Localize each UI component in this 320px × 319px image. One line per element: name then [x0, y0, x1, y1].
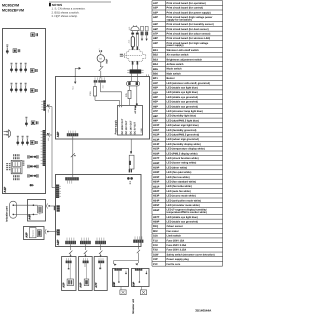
svg-text:BS3: BS3 — [153, 58, 158, 61]
svg-text:S1A: S1A — [71, 86, 74, 90]
wire ion a — [13, 204, 37, 206]
svg-text:DC 14V OUT: DC 14V OUT — [130, 120, 133, 134]
svg-text:H17P: H17P — [153, 157, 160, 160]
wire ferrite to X1A L — [130, 74, 132, 82]
legend table — [152, 0, 223, 2]
PCB A1P box — [3, 29, 46, 194]
board connector mark a — [47, 105, 49, 106]
wire X4A to X6A — [72, 136, 74, 177]
svg-text:M1F: M1F — [153, 230, 158, 233]
notes header rule — [49, 1, 111, 3]
LED row H8P-H10P x4 a — [11, 63, 13, 64]
svg-text:Airflow switch: Airflow switch — [167, 63, 184, 66]
svg-text:power supply): power supply) — [167, 44, 184, 47]
svg-text:supply for ionization): supply for ionization) — [167, 18, 192, 21]
svg-text:LED (stable eye green/red): LED (stable eye green/red) — [167, 96, 199, 99]
svg-text:BS5: BS5 — [153, 68, 158, 71]
svg-text:LED (streamer lamp light blue): LED (streamer lamp light blue) — [167, 110, 203, 113]
S1W pins — [132, 46, 134, 50]
svg-text:M1F: M1F — [105, 58, 108, 63]
svg-text:Print circuit board (for dust: Print circuit board (for dust sensor) — [167, 28, 209, 31]
svg-text:BS4: BS4 — [153, 63, 158, 66]
svg-text:H9P: H9P — [153, 119, 158, 122]
cable plug R — [135, 34, 137, 46]
LED H6P — [30, 184, 32, 186]
wire X1A to PS — [136, 86, 138, 105]
connector X7A on A2P left — [56, 185, 59, 199]
svg-text:DC 15/5V OUT: DC 15/5V OUT — [121, 118, 124, 134]
wire X5A to F1U — [94, 83, 96, 87]
wire A1P X3A to bus — [46, 134, 52, 136]
svg-text:X1P: X1P — [128, 26, 131, 30]
PCB A6P box — [79, 257, 93, 291]
svg-text:LED (odour sign green/red): LED (odour sign green/red) — [167, 138, 200, 141]
svg-text:H27P: H27P — [153, 216, 160, 219]
ferrite bead — [130, 69, 142, 73]
power supply unit box — [118, 106, 143, 136]
svg-text:LED (fan quiet white): LED (fan quiet white) — [167, 171, 192, 174]
connector X15A on A2P bottom — [65, 241, 76, 244]
svg-text:H23P: H23P — [153, 195, 160, 198]
svg-text:LED (louver swing white): LED (louver swing white) — [167, 162, 197, 165]
wire A9P to A2P — [49, 231, 57, 233]
svg-text:H6P: H6P — [153, 105, 158, 108]
svg-text:LED (auto fan white): LED (auto fan white) — [167, 190, 191, 193]
LED row H11P-H13P x4 b — [11, 83, 13, 84]
svg-text:H4P: H4P — [153, 96, 158, 99]
wire ion b — [13, 213, 37, 215]
wire X5A-2 to PS — [99, 83, 101, 92]
wire bus to A2P — [52, 187, 56, 189]
connector X13A — [30, 141, 34, 145]
A9P out connector — [45, 229, 46, 234]
svg-text:LED (fan turbo white): LED (fan turbo white) — [167, 185, 192, 188]
fan motor M1F — [97, 55, 104, 62]
svg-text:X1P: X1P — [153, 258, 158, 261]
svg-text:Power supply plug: Power supply plug — [167, 258, 190, 261]
PCB A3P box — [56, 77, 150, 140]
svg-text:LED (stable eye green/red): LED (stable eye green/red) — [167, 220, 199, 223]
svg-text:S1W: S1W — [153, 253, 159, 256]
power supply plug X1P — [131, 26, 139, 30]
A9P inner unit — [29, 228, 36, 238]
wire streamer electrode — [141, 287, 143, 290]
svg-text:F2U: F2U — [153, 244, 158, 247]
svg-text:H10P: H10P — [153, 124, 160, 127]
X3A pin ticks — [41, 131, 43, 133]
svg-text:BS6: BS6 — [153, 72, 158, 75]
A4P transformer — [38, 206, 43, 213]
PCB A8P box — [113, 269, 129, 287]
X6A pin ticks — [66, 180, 68, 183]
connector X4A on A3P bottom — [67, 133, 79, 136]
connection arrow in S1A — [74, 78, 76, 82]
X18A ticks — [134, 236, 136, 239]
svg-text:A9P: A9P — [133, 281, 136, 286]
svg-text:Fuse 250V 3.15A: Fuse 250V 3.15A — [167, 249, 187, 252]
svg-text:H21P: H21P — [153, 185, 160, 188]
svg-text:LED (odour sign light blue): LED (odour sign light blue) — [167, 124, 199, 127]
svg-text:A5P: A5P — [62, 282, 65, 287]
svg-text:LED (humidity light blue): LED (humidity light blue) — [167, 115, 197, 118]
buzzer BZ1 — [4, 131, 8, 133]
wire X1A to F2U — [128, 86, 130, 90]
svg-text:Ferrite core: Ferrite core — [167, 263, 181, 266]
svg-text:LED (PM2.5 display white): LED (PM2.5 display white) — [167, 152, 198, 155]
streamer bus — [114, 260, 139, 262]
connector X14A on A2P left — [57, 229, 60, 235]
svg-text:Z1C: Z1C — [128, 39, 131, 43]
svg-text:Brightness adjustment switch: Brightness adjustment switch — [167, 58, 203, 61]
svg-text:Fuse 250V 3.15A: Fuse 250V 3.15A — [167, 244, 187, 247]
junction dots — [33, 204, 35, 206]
svg-text:H19P: H19P — [153, 166, 160, 169]
streamer pcb wires — [138, 271, 140, 282]
PCB A7P box — [94, 257, 107, 291]
LED row x3 — [17, 136, 19, 137]
connector X8A on A2P left — [57, 205, 60, 211]
connector X12A — [31, 121, 35, 125]
svg-text:X2A: X2A — [47, 108, 50, 112]
board connector mark b — [47, 133, 49, 134]
connector X11A — [30, 89, 34, 93]
terminal a — [141, 26, 144, 31]
ferrite core Z1C — [131, 37, 134, 47]
svg-text:R1Q: R1Q — [153, 225, 158, 228]
X4A pin ticks — [68, 131, 70, 134]
A8P electrode box — [120, 290, 126, 295]
LED pair H27P/H28P — [26, 174, 29, 177]
svg-text:Print circuit board (for odour: Print circuit board (for odour sensor) — [167, 32, 211, 35]
svg-text:A5P: A5P — [153, 23, 158, 26]
svg-text:Print circuit board (for opera: Print circuit board (for operation) — [167, 2, 206, 5]
svg-text:Streamer: Streamer — [32, 229, 35, 236]
svg-text:LED (temperature display white: LED (temperature display white) — [167, 148, 205, 151]
svg-text:Fan motor: Fan motor — [167, 230, 179, 233]
PCB A5P box — [62, 257, 76, 291]
svg-text:temperature/PM2.5 monitor whit: temperature/PM2.5 monitor white) — [167, 211, 207, 214]
svg-text:H11P: H11P — [153, 129, 159, 132]
svg-text:LED (humidity green/red): LED (humidity green/red) — [167, 129, 197, 132]
svg-text:LED (timer white): LED (timer white) — [167, 166, 188, 169]
svg-text:Main switch: Main switch — [167, 72, 182, 75]
svg-text:A2P: A2P — [153, 7, 158, 10]
svg-text:LED (wireless LAN on/off, gree: LED (wireless LAN on/off, green/red) — [167, 82, 211, 85]
svg-text:AC IN: AC IN — [134, 107, 137, 113]
A9P hv block — [37, 230, 41, 237]
svg-text:2. BS() shows a switch.: 2. BS() shows a switch. — [52, 11, 80, 14]
LED pair H3P/H5P — [26, 165, 29, 168]
X17A ticks — [96, 238, 98, 241]
svg-text:F1U: F1U — [153, 239, 158, 242]
wire A1P X2A to bus — [46, 106, 52, 108]
svg-text:DC 12V OUT: DC 12V OUT — [125, 120, 128, 134]
wire A2P to A6P — [84, 244, 86, 250]
fuse F1U — [93, 87, 96, 96]
X16A ticks — [81, 238, 83, 241]
svg-text:LED (stable eye light blue): LED (stable eye light blue) — [167, 216, 198, 219]
svg-text:A1P: A1P — [3, 187, 7, 193]
svg-text:Fuse 250V 15A: Fuse 250V 15A — [167, 239, 185, 242]
odour sensor R1Q — [130, 139, 132, 151]
connector X1A oval — [127, 81, 140, 86]
svg-text:Safety switch (streamer cover: Safety switch (streamer cover detection) — [167, 253, 215, 256]
ticks top right A3P — [145, 74, 147, 76]
svg-text:A6P: A6P — [79, 282, 82, 287]
wire motor to X5A — [100, 71, 102, 79]
notes header — [49, 3, 51, 6]
safety switch S1W box — [127, 50, 146, 61]
svg-text:GND: GND — [140, 128, 143, 133]
svg-text:H26P: H26P — [153, 209, 160, 212]
svg-text:H3P: H3P — [153, 91, 158, 94]
svg-text:LED (circulator mode white): LED (circulator mode white) — [167, 204, 200, 207]
svg-text:3D140544A: 3D140544A — [195, 309, 212, 313]
svg-text:Limit switch: Limit switch — [167, 235, 182, 238]
svg-text:LED (stable eye green/red): LED (stable eye green/red) — [167, 105, 199, 108]
svg-text:H8P: H8P — [153, 115, 158, 118]
svg-text:A7P: A7P — [153, 33, 158, 36]
connector X5A on A3P — [94, 80, 98, 82]
connector X9A — [13, 49, 17, 53]
svg-text:H1P: H1P — [153, 82, 158, 85]
svg-text:F1U: F1U — [89, 91, 92, 96]
svg-text:A3P: A3P — [56, 132, 60, 138]
svg-text:Z1C: Z1C — [153, 263, 158, 266]
svg-text:A1P: A1P — [153, 2, 158, 5]
wire F1U to PS — [94, 96, 96, 100]
svg-text:H5P: H5P — [153, 101, 158, 104]
svg-text:H19P: H19P — [153, 176, 160, 179]
svg-text:H15P: H15P — [153, 148, 160, 151]
svg-text:DC 5V OUT: DC 5V OUT — [134, 121, 137, 134]
svg-text:H18P: H18P — [153, 171, 160, 174]
X5A pin ticks — [94, 77, 96, 80]
svg-text:NOTES: NOTES — [52, 3, 62, 7]
svg-text:LED (check function white): LED (check function white) — [167, 157, 199, 160]
svg-text:Buzzer: Buzzer — [167, 77, 175, 80]
bus drop left — [113, 261, 115, 264]
wire A8P electrode — [120, 287, 122, 290]
svg-text:BS1: BS1 — [153, 49, 158, 52]
svg-text:LED (dust/PM2.5 light blue): LED (dust/PM2.5 light blue) — [167, 119, 200, 122]
svg-text:A9P: A9P — [153, 42, 158, 45]
svg-text:Odour sensor: Odour sensor — [167, 225, 183, 228]
svg-text:Mode switch: Mode switch — [167, 68, 182, 71]
svg-text:3. H()P shows a lamp.: 3. H()P shows a lamp. — [52, 15, 79, 18]
svg-text:MC80ZBFVM: MC80ZBFVM — [2, 8, 24, 12]
wire S1W to ferrite L — [132, 65, 134, 70]
LED H17P — [25, 117, 27, 118]
svg-text:Air monitor switch: Air monitor switch — [167, 54, 189, 57]
A8P wires — [118, 271, 120, 282]
svg-text:Print circuit board (for contr: Print circuit board (for control) — [167, 7, 204, 10]
PCB A2P box — [56, 175, 142, 247]
svg-text:H13P: H13P — [153, 138, 160, 141]
bus drop right — [137, 261, 139, 263]
PCB A4P box — [28, 200, 46, 222]
svg-text:LED (fan low white): LED (fan low white) — [167, 176, 190, 179]
svg-text:LED (econo mode white): LED (econo mode white) — [167, 195, 196, 198]
LED H7P — [6, 45, 8, 46]
svg-text:LED (stable eye green/red): LED (stable eye green/red) — [167, 101, 199, 104]
bus wire vertical — [51, 107, 53, 188]
connector mark mid — [71, 153, 75, 157]
connector pins below edge — [127, 177, 130, 180]
svg-text:A4P: A4P — [153, 16, 158, 19]
svg-text:BS2: BS2 — [153, 54, 158, 57]
connector on streamer pcb — [135, 268, 142, 270]
svg-text:Print circuit board (for humid: Print circuit board (for humidity sensor… — [167, 23, 214, 26]
svg-text:H16P: H16P — [153, 152, 160, 155]
svg-text:A7P: A7P — [95, 282, 98, 287]
svg-text:Streamer unit: Streamer unit — [132, 299, 135, 314]
svg-text:H20P: H20P — [153, 181, 160, 184]
connection arrow out — [74, 68, 76, 76]
wire A2P to A7P — [100, 244, 102, 250]
svg-text:H22P: H22P — [153, 190, 160, 193]
wire S1W to ferrite R — [136, 65, 138, 70]
svg-text:MC80ZVM: MC80ZVM — [2, 3, 19, 7]
LED pair H2P/H4P — [26, 155, 29, 158]
connector X17A on A2P bottom — [95, 241, 106, 244]
PCB streamer box — [132, 269, 150, 287]
svg-text:Ionization part: Ionization part — [6, 206, 9, 222]
svg-text:A4P: A4P — [27, 214, 31, 220]
svg-text:BZ1: BZ1 — [153, 77, 158, 80]
svg-text:1. S, CN shows a connector.: 1. S, CN shows a connector. — [52, 8, 86, 11]
svg-text:2: 2 — [99, 47, 100, 50]
svg-text:F2U: F2U — [125, 92, 128, 97]
connector X18A on A2P bottom — [133, 240, 143, 243]
svg-text:H24P: H24P — [153, 199, 160, 202]
svg-text:A8P: A8P — [153, 37, 158, 40]
svg-text:LED (anti-pollen mode white): LED (anti-pollen mode white) — [167, 199, 202, 202]
X7A pin ticks — [59, 185, 61, 187]
fuse F2U — [128, 90, 131, 98]
svg-text:Print circuit board (for wirel: Print circuit board (for wireless LAN) — [167, 37, 211, 40]
wire A4P to A2P — [50, 205, 57, 207]
svg-text:A9P: A9P — [24, 232, 28, 238]
svg-text:F3U: F3U — [153, 249, 158, 252]
connector X3A on A1P edge — [43, 130, 46, 166]
connector on A8P — [114, 268, 121, 270]
label S1W — [120, 54, 123, 55]
ionization electrode — [10, 201, 17, 218]
svg-text:H12P: H12P — [153, 134, 160, 137]
svg-text:S1A: S1A — [153, 235, 158, 238]
motor pin ticks — [99, 50, 100, 52]
streamer electrode box — [140, 290, 146, 295]
svg-text:A2P: A2P — [56, 240, 60, 246]
connector X10A — [30, 69, 34, 73]
svg-text:LED (fan standard white): LED (fan standard white) — [167, 181, 197, 184]
svg-text:H14P: H14P — [153, 143, 160, 146]
PCB A9P box — [24, 227, 45, 240]
wire A2P to streamer — [137, 243, 139, 249]
svg-text:LED (dust/PM2.5 green/red): LED (dust/PM2.5 green/red) — [167, 134, 200, 137]
wire ferrite to X1A R — [136, 74, 138, 82]
svg-text:X3A: X3A — [47, 137, 50, 141]
svg-text:Wireless LAN on/off switch: Wireless LAN on/off switch — [167, 49, 200, 52]
connector X2A on A1P edge — [43, 100, 45, 110]
svg-text:LED (stable eye light blue): LED (stable eye light blue) — [167, 87, 198, 90]
X2A pin ticks — [41, 101, 43, 103]
svg-text:H2P: H2P — [153, 87, 158, 90]
svg-text:Print circuit board (for power: Print circuit board (for power supply) — [167, 11, 211, 14]
A4P out connector — [46, 203, 47, 208]
X15A ticks — [66, 238, 68, 241]
svg-text:A8P: A8P — [113, 281, 116, 286]
svg-text:H28P: H28P — [153, 221, 160, 224]
wire A2P to A5P — [70, 244, 72, 250]
svg-text:Power supply: Power supply — [115, 119, 118, 134]
wire F2U to PS — [128, 99, 130, 106]
svg-text:H25P: H25P — [153, 204, 160, 207]
connector X6A on A2P top — [65, 177, 79, 180]
svg-text:X5A: X5A — [101, 84, 104, 88]
svg-text:M: M — [100, 58, 102, 61]
svg-text:A3P: A3P — [153, 11, 158, 14]
limit switch S1A — [100, 62, 102, 66]
svg-text:H7P: H7P — [153, 110, 158, 113]
svg-text:A6P: A6P — [153, 28, 158, 31]
LED H1P cluster — [31, 33, 35, 37]
svg-text:H18P: H18P — [153, 162, 160, 165]
svg-text:LED (humidity display white): LED (humidity display white) — [167, 143, 201, 146]
svg-text:LED (stable eye light blue): LED (stable eye light blue) — [167, 91, 198, 94]
terminal b — [145, 26, 148, 31]
connector X16A on A2P bottom — [80, 241, 91, 244]
7-segment display H26P — [11, 160, 22, 174]
